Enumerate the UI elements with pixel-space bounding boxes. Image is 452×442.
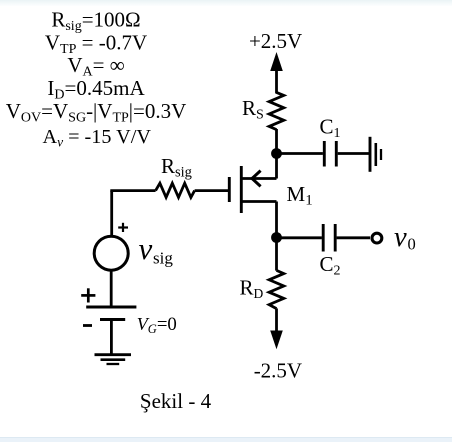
svg-text:C1: C1 [320, 115, 341, 142]
battery + label [81, 288, 95, 302]
svg-text:-2.5V: -2.5V [254, 359, 302, 383]
wire Rsig to left branch [110, 189, 155, 192]
svg-text:VG=0: VG=0 [137, 314, 177, 336]
wire battery to ground [110, 319, 113, 353]
ground at battery [95, 355, 132, 364]
svg-text:sig: sig [153, 249, 173, 268]
polarity + above vsig [118, 223, 128, 232]
source vsig circle [94, 236, 128, 270]
battery VG bottom plate [100, 318, 125, 321]
wire RS to source node [275, 129, 278, 154]
svg-text:v: v [139, 231, 153, 266]
svg-text:Av = -15 V/V: Av = -15 V/V [42, 126, 151, 150]
svg-text:0: 0 [408, 235, 416, 254]
capacitor C2 [323, 224, 335, 252]
resistor RD [269, 270, 284, 308]
power supply arrow +2.5V [270, 52, 283, 94]
svg-text:Şekil - 4: Şekil - 4 [140, 389, 212, 413]
resistor RS [269, 92, 284, 129]
wire node to C1 [277, 152, 323, 155]
battery VG top plate [86, 306, 136, 309]
node drain junction dot [271, 232, 282, 243]
svg-text:C2: C2 [320, 252, 341, 279]
ground (rotated) at C1 [370, 137, 381, 172]
node source junction dot [271, 148, 282, 159]
svg-text:RS: RS [242, 96, 264, 123]
battery - label [83, 324, 92, 327]
wire RD to -2.5V arrow [275, 308, 278, 332]
wire down to vsig source [110, 191, 113, 236]
resistor Rsig [156, 183, 195, 197]
wire C1 to ground [338, 152, 369, 155]
wire drain node to C2 [277, 236, 322, 239]
capacitor C1 [324, 141, 336, 167]
wire gate bar to Rsig [195, 189, 230, 192]
power supply arrow -2.5V [270, 331, 283, 350]
svg-text:RD: RD [240, 276, 264, 302]
svg-text:VOV=VSG-|VTP|=0.3V: VOV=VSG-|VTP|=0.3V [6, 99, 187, 126]
svg-text:+2.5V: +2.5V [249, 29, 302, 53]
svg-text:Rsig: Rsig [161, 154, 192, 181]
svg-text:M1: M1 [287, 182, 313, 209]
wire drain node to RD [275, 238, 278, 271]
wire C2 to output terminal [337, 236, 370, 239]
svg-text:v: v [394, 222, 407, 253]
wire vsig to battery [110, 271, 113, 307]
output terminal circle v0 [372, 233, 382, 243]
transistor M1 (PMOS) [229, 154, 276, 238]
